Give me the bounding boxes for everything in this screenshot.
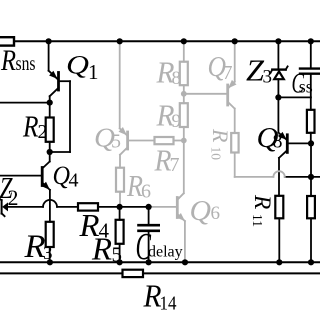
svg-text:R: R xyxy=(22,108,38,143)
node junction Z3 / top rail xyxy=(275,38,281,44)
black junction dots xyxy=(46,38,315,265)
transistor Q4 xyxy=(0,152,79,222)
capacitor Cdelay xyxy=(136,207,183,268)
wire R10 to right xyxy=(235,176,274,178)
node junction R3 / bottom rail xyxy=(47,259,53,265)
transistor Q1 xyxy=(49,41,99,152)
gray (inactive) section xyxy=(94,41,285,262)
resistor R5 xyxy=(91,207,124,267)
zener diode Z3 xyxy=(246,41,288,97)
node junction R8 / top rail xyxy=(181,38,187,44)
wire hop over Q8 collector line xyxy=(273,171,284,177)
transistor Q5 xyxy=(94,41,155,167)
node junction Css / top rail xyxy=(308,38,314,44)
svg-text:delay: delay xyxy=(148,244,183,261)
transistor Q7 xyxy=(208,41,237,133)
svg-text:14: 14 xyxy=(160,293,177,315)
resistor R14 xyxy=(0,270,320,315)
svg-text:Q: Q xyxy=(66,51,89,80)
wire Q8 base node down xyxy=(310,143,312,177)
svg-text:7: 7 xyxy=(170,154,180,176)
svg-text:8: 8 xyxy=(273,131,283,153)
svg-text:8: 8 xyxy=(172,68,182,89)
node junction Q7 emitter / top rail xyxy=(232,38,238,44)
wire to R4 xyxy=(57,206,78,208)
svg-text:6: 6 xyxy=(141,181,151,203)
wire node to right edge xyxy=(285,176,320,178)
resistor R4 xyxy=(78,203,149,243)
node junction R4 / R5 / R6 xyxy=(117,204,123,210)
svg-text:2: 2 xyxy=(38,121,48,143)
bottom rail xyxy=(0,261,320,263)
zener diode Z2 xyxy=(0,170,19,216)
svg-text:R: R xyxy=(0,44,16,77)
svg-text:1: 1 xyxy=(88,60,99,84)
svg-text:11: 11 xyxy=(250,214,265,227)
node junction Cdelay / bottom rail xyxy=(146,259,152,265)
svg-text:6: 6 xyxy=(211,203,221,224)
svg-text:R: R xyxy=(91,231,112,267)
transistor Q8 xyxy=(257,97,312,195)
node left output wire xyxy=(0,102,50,104)
svg-text:Q: Q xyxy=(190,195,212,227)
svg-text:3: 3 xyxy=(263,66,273,87)
node junction R10 wire / R13 xyxy=(308,174,314,180)
svg-text:R: R xyxy=(249,194,275,209)
resistor R10 xyxy=(208,128,239,177)
wire top rail xyxy=(14,40,320,42)
wire hop over Q4 emitter line xyxy=(43,200,57,207)
svg-text:9: 9 xyxy=(172,111,182,132)
node junction Cdelay top / Q6 base xyxy=(146,204,152,210)
resistor R9 xyxy=(156,94,188,141)
node junction R13 / bottom rail xyxy=(308,259,314,265)
resistor R8 xyxy=(156,41,188,94)
node junction R11 / bottom rail xyxy=(276,259,282,265)
node junction R8/R9/Q7 base (gray) xyxy=(181,91,187,97)
capacitor Css xyxy=(292,41,320,99)
resistor R12 (unlabeled, Q8 base) xyxy=(307,97,315,143)
transistor Q6 xyxy=(149,141,220,263)
svg-text:5: 5 xyxy=(111,131,121,153)
node junction Z3 bottom / Q8 emitter xyxy=(275,94,281,100)
resistor R7 xyxy=(154,137,184,178)
resistor R3 xyxy=(23,222,53,265)
node junction R7/R9/Q6 collector (gray) xyxy=(181,138,187,144)
svg-text:10: 10 xyxy=(209,147,224,161)
resistor R2 xyxy=(22,103,54,152)
resistor Rsns xyxy=(0,37,36,77)
svg-text:sns: sns xyxy=(16,53,36,75)
node junction Q1 emitter / top rail xyxy=(46,38,52,44)
node junction R2 bottom / Q4 collector xyxy=(47,149,53,155)
node junction Q1 collector / R2 top xyxy=(47,100,53,106)
wire from Z2 xyxy=(8,206,43,208)
svg-text:R: R xyxy=(208,128,233,143)
wire node Z3 to Css branch xyxy=(278,96,310,98)
resistor R11 xyxy=(249,194,283,262)
svg-text:4: 4 xyxy=(69,169,79,191)
svg-text:7: 7 xyxy=(223,62,233,84)
resistor R13 (unlabeled right) xyxy=(307,177,315,262)
node junction Q8 base / R12 xyxy=(308,140,314,146)
svg-text:ss: ss xyxy=(299,76,313,96)
node junction R5 / bottom rail xyxy=(117,259,123,265)
wire R8/R9 node to Q7 base xyxy=(184,93,228,95)
node junction Q5 emitter / top rail xyxy=(117,38,123,44)
resistor R6 xyxy=(116,168,151,207)
node junction Q6 emitter / bottom rail xyxy=(182,259,188,265)
